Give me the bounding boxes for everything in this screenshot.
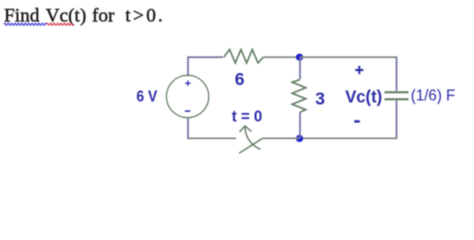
switch S1 arrowhead	[240, 126, 252, 132]
svg-text:for: for	[92, 6, 115, 27]
svg-text:(1/6) F: (1/6) F	[411, 87, 456, 104]
svg-text:Vc(t): Vc(t)	[345, 87, 382, 107]
wire: source bottom stub (vertical)	[187, 117, 189, 138]
wire: switch left contact to bottom-left corner	[187, 137, 236, 139]
svg-text:.: .	[158, 6, 163, 27]
spellcheck squiggle blue under "Find"	[4, 23, 47, 25]
wire: top-left horizontal from source corner to resistor R1	[187, 56, 223, 58]
resistor R2 (3 ohm) vertical zigzag	[292, 80, 306, 113]
voltage source V1 circle	[166, 75, 208, 117]
wire: node B left to switch right contact	[263, 137, 300, 139]
svg-text:6: 6	[235, 69, 245, 89]
wire: bottom-right horizontal to node B	[300, 137, 398, 139]
switch S1 blade (open)	[239, 138, 263, 153]
svg-text:6 V: 6 V	[136, 89, 157, 106]
svg-text:0: 0	[146, 6, 156, 27]
capacitor C1 plates	[385, 92, 409, 99]
capacitor polarity plus label	[355, 66, 363, 74]
svg-text:t = 0: t = 0	[232, 109, 262, 126]
resistor R1 (6 ohm) zigzag	[224, 50, 263, 63]
voltage source V1 plus sign	[185, 81, 190, 86]
svg-text:3: 3	[315, 89, 325, 109]
wire: node A to top-right corner	[300, 56, 398, 58]
svg-text:>: >	[133, 6, 144, 27]
voltage source V1 minus sign	[185, 110, 190, 112]
wire: capacitor bottom plate down to bottom-right corner	[396, 100, 398, 138]
switch S1 motion arrow arc	[245, 126, 261, 150]
svg-text:t: t	[125, 6, 131, 27]
wire: node A stub down to resistor R2	[299, 57, 301, 79]
node A (top junction dot)	[296, 54, 303, 61]
wire: right vertical down to capacitor top plate	[396, 57, 398, 91]
spellcheck squiggle red under "Vc(t)"	[47, 23, 74, 25]
node B (bottom junction dot)	[296, 135, 303, 142]
wire: source top stub (vertical)	[187, 57, 189, 76]
wire: R1 right to node A	[264, 56, 300, 58]
wire: R2 bottom stub down to node B	[299, 112, 301, 138]
capacitor polarity minus label	[354, 120, 360, 122]
title text "Find Vc(t) for t > 0 ."	[4, 6, 163, 27]
